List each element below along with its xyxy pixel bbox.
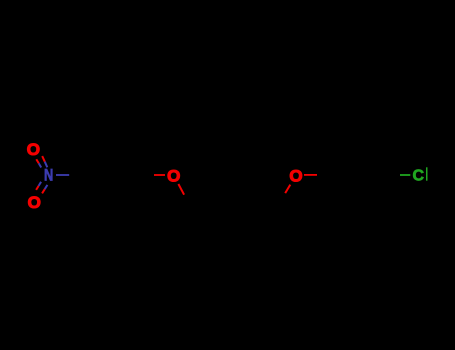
svg-text:O: O [28, 193, 41, 212]
nitro N=O top double bond, outer line red half (O side) [42, 156, 45, 162]
nitro N=O bottom double bond, outer line blue half (N side) [45, 185, 48, 189]
svg-text:N: N [44, 167, 53, 185]
nitro N=O bottom double bond, inner line blue half (N side) [39, 182, 42, 186]
right ether: O to ring C half-bond (red, horizontal) [304, 174, 317, 176]
svg-text:O: O [27, 140, 40, 159]
nitro N=O top double bond, inner line blue half (N side) [39, 163, 41, 167]
nitro N=O top double bond, inner line red half (O side) [36, 159, 39, 163]
svg-text:O: O [289, 167, 302, 186]
nitro N=O bottom double bond, outer line red half (O side) [42, 189, 45, 193]
right ether: O to chain C half-bond (red, down-left) [285, 185, 290, 194]
left ether: ring C to O half-bond (red, horizontal) [154, 174, 165, 176]
chlorine atom label Cl : letter l (thin vertical stroke) [426, 167, 428, 180]
N to ring C half-bond (blue) [56, 174, 69, 176]
left ether: O to chain C half-bond (red, down-right) [178, 184, 184, 195]
ring C to Cl half-bond (green) [400, 174, 410, 176]
nitro N=O top double bond, outer line blue half (N side) [45, 162, 48, 168]
nitro N=O bottom double bond, inner line red half (O side) [36, 186, 39, 190]
svg-text:O: O [167, 166, 180, 185]
svg-text:C: C [413, 167, 425, 184]
